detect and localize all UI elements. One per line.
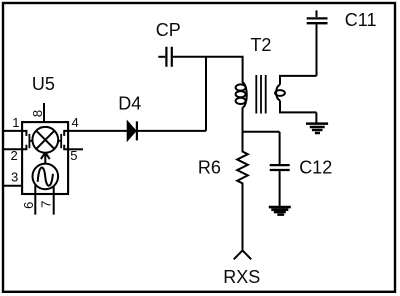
- wire CP to transformer: [173, 57, 243, 83]
- transformer T2 secondary winding: [275, 76, 316, 113]
- svg-text:U5: U5: [32, 74, 55, 94]
- svg-text:8: 8: [30, 110, 45, 117]
- node RXS fork: [234, 250, 251, 259]
- capacitor C11 lead down: [316, 24, 318, 76]
- svg-text:T2: T2: [250, 35, 271, 55]
- svg-text:3: 3: [11, 170, 18, 185]
- svg-text:5: 5: [70, 148, 77, 163]
- U5 pin 1 wire: [4, 131, 26, 136]
- svg-text:1: 1: [12, 115, 19, 130]
- wire diode to node: [138, 130, 206, 132]
- wire U5 pin4 to diode: [68, 130, 128, 132]
- ground G1: [306, 124, 328, 133]
- svg-text:7: 7: [39, 201, 54, 208]
- svg-text:RXS: RXS: [223, 267, 260, 287]
- diode D4: [127, 121, 136, 140]
- svg-text:CP: CP: [156, 20, 181, 40]
- svg-text:C11: C11: [345, 10, 377, 30]
- capacitor C12 lead top: [279, 132, 281, 164]
- U5 pin 4 tab: [64, 131, 68, 136]
- svg-text:4: 4: [72, 115, 79, 130]
- capacitor CP lead left: [158, 56, 165, 58]
- capacitor C11 top stub: [316, 10, 318, 17]
- capacitor C11 plates: [307, 18, 328, 23]
- wire node up: [205, 57, 207, 131]
- svg-text:R6: R6: [198, 158, 221, 178]
- svg-text:C12: C12: [299, 158, 332, 178]
- wire secondary to ground: [315, 112, 317, 122]
- U5 pin 2 wire: [4, 145, 26, 150]
- mixer-oscillator IC U5 body: [22, 122, 68, 194]
- capacitor C12 plates: [270, 165, 290, 170]
- ground G2: [269, 207, 291, 215]
- transformer T2 core: [256, 75, 265, 114]
- U5 pin 3 wire: [4, 185, 23, 187]
- transformer T2 primary winding: [236, 83, 247, 132]
- U5 pin 5 stub: [68, 148, 83, 150]
- U5 pin 8 lead: [43, 103, 45, 122]
- U5 pin 7 lead: [53, 186, 55, 215]
- capacitor C12 lead bottom: [279, 171, 281, 206]
- U5 pin 5 tab: [64, 145, 68, 150]
- resistor R6: [237, 132, 248, 251]
- wire transformer to R6/C12: [243, 131, 280, 133]
- svg-text:D4: D4: [118, 93, 141, 113]
- svg-text:6: 6: [21, 202, 36, 209]
- svg-text:2: 2: [11, 148, 18, 163]
- capacitor CP plates: [166, 47, 171, 67]
- U5 pin 6 lead: [34, 185, 36, 214]
